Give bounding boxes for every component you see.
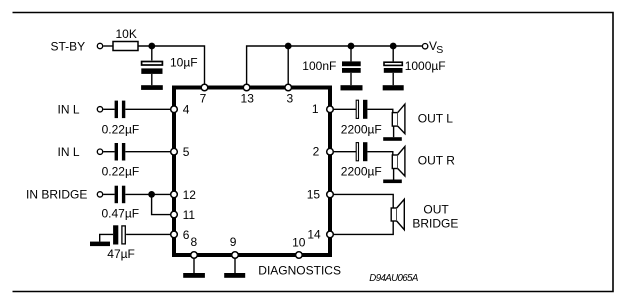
speaker LS3 OUT BRIDGE xyxy=(391,199,404,229)
svg-text:4: 4 xyxy=(183,102,190,116)
wire resistor to pin 7 riser xyxy=(138,46,205,88)
wire jog node to pin 11 xyxy=(152,194,172,214)
wire C9 to speaker LS2 xyxy=(367,152,392,155)
svg-text:47µF: 47µF xyxy=(107,247,135,261)
node B junction dot xyxy=(148,191,155,198)
svg-text:2200µF: 2200µF xyxy=(341,165,382,179)
svg-text:6: 6 xyxy=(183,228,190,242)
wire C5 to pin 5 xyxy=(125,151,172,153)
svg-text:0.47µF: 0.47µF xyxy=(102,207,140,221)
capacitor C6 0.47uF xyxy=(115,186,126,204)
svg-text:9: 9 xyxy=(230,235,237,249)
svg-text:D94AU065A: D94AU065A xyxy=(369,273,418,284)
wire pin 3 riser xyxy=(287,46,289,88)
pin 6 xyxy=(171,231,178,238)
wire Vs rail xyxy=(247,46,422,88)
terminal IN BRIDGE xyxy=(97,192,102,197)
pin 2 xyxy=(327,148,334,155)
svg-text:10: 10 xyxy=(292,235,306,249)
terminal IN L row2 xyxy=(97,149,102,154)
ground for C7 xyxy=(90,242,110,247)
wire pin 2 to C9 xyxy=(334,151,356,153)
capacitor C2 100nF xyxy=(342,46,361,85)
wire pin 8 ground stub xyxy=(193,255,195,273)
svg-text:5: 5 xyxy=(183,145,190,159)
svg-text:15: 15 xyxy=(307,187,321,201)
wire pin 15 to speaker LS3 top xyxy=(334,194,393,208)
svg-text:IN L: IN L xyxy=(58,102,80,116)
pin 14 xyxy=(327,231,334,238)
capacitor C4 0.22uF xyxy=(115,101,126,119)
node A junction dot xyxy=(148,43,155,50)
wire pin 14 to speaker LS3 bottom xyxy=(334,221,393,234)
speaker LS2 OUT R xyxy=(392,147,405,180)
node junction 100nF xyxy=(348,43,355,50)
terminal ST-BY xyxy=(97,43,102,48)
speaker LS1 OUT L xyxy=(392,104,405,137)
terminal Vs xyxy=(422,44,427,49)
svg-text:8: 8 xyxy=(190,235,197,249)
pin 10 xyxy=(296,252,303,259)
wire C7 to pin 6 xyxy=(126,233,172,235)
wire C8 to speaker LS1 xyxy=(367,109,392,112)
svg-text:12: 12 xyxy=(183,188,197,202)
resistor R1 10K xyxy=(113,42,138,51)
pin 15 xyxy=(327,191,334,198)
svg-text:7: 7 xyxy=(200,92,207,106)
ground for pin 9 xyxy=(224,273,245,278)
pin 4 xyxy=(171,106,178,113)
wire pin 1 to C8 xyxy=(334,108,356,110)
svg-text:IN BRIDGE: IN BRIDGE xyxy=(26,187,87,201)
svg-text:BRIDGE: BRIDGE xyxy=(412,216,458,230)
ground for LS2 xyxy=(383,180,402,184)
svg-text:OUT R: OUT R xyxy=(418,153,455,167)
ground for C3 xyxy=(383,85,404,90)
ground for C1 xyxy=(141,85,163,90)
ground for pin 8 xyxy=(183,273,205,278)
wire ST-BY terminal to resistor xyxy=(103,45,113,47)
svg-text:S: S xyxy=(436,44,443,56)
terminal IN L row1 xyxy=(97,107,102,112)
capacitor C8 2200uF xyxy=(356,100,367,119)
svg-text:1000µF: 1000µF xyxy=(405,59,446,73)
pin 5 xyxy=(171,148,178,155)
wire ground to C7 xyxy=(100,234,113,241)
svg-text:DIAGNOSTICS: DIAGNOSTICS xyxy=(258,263,341,277)
svg-text:14: 14 xyxy=(307,227,321,241)
svg-text:OUT: OUT xyxy=(423,203,449,217)
wire terminal to C5 xyxy=(103,151,114,153)
pin 8 xyxy=(191,252,198,259)
svg-text:10µF: 10µF xyxy=(170,55,198,69)
svg-text:100nF: 100nF xyxy=(302,59,336,73)
capacitor C3 1000uF xyxy=(384,46,403,85)
capacitor C5 0.22uF xyxy=(115,143,126,161)
ground for LS1 xyxy=(383,137,402,141)
pin 12 xyxy=(171,191,178,198)
capacitor C9 2200uF xyxy=(356,142,367,161)
ground for C2 xyxy=(341,85,363,90)
capacitor C1 10uF xyxy=(141,46,162,85)
wire terminal to C6 xyxy=(103,193,114,195)
svg-text:1: 1 xyxy=(312,102,319,116)
wire terminal to C4 xyxy=(103,108,114,110)
svg-text:3: 3 xyxy=(287,92,294,106)
node junction 1000uF xyxy=(390,43,397,50)
pin 1 xyxy=(327,106,334,113)
svg-text:0.22µF: 0.22µF xyxy=(102,165,140,179)
pin 7 xyxy=(201,84,208,91)
wire pin 9 ground stub xyxy=(234,255,236,273)
pin 13 xyxy=(243,84,250,91)
op-amp U1 power amplifier body xyxy=(174,88,330,256)
pin 9 xyxy=(232,252,239,259)
svg-text:2200µF: 2200µF xyxy=(341,122,382,136)
svg-text:0.22µF: 0.22µF xyxy=(102,122,140,136)
wire C4 to pin 4 xyxy=(125,108,172,110)
svg-text:OUT L: OUT L xyxy=(418,111,453,125)
svg-text:IN L: IN L xyxy=(58,145,80,159)
pin 3 xyxy=(285,84,292,91)
svg-text:11: 11 xyxy=(183,208,196,222)
node junction pin3 riser xyxy=(285,43,292,50)
svg-text:13: 13 xyxy=(241,92,255,106)
pin 11 xyxy=(171,211,178,218)
svg-text:ST-BY: ST-BY xyxy=(51,39,86,53)
capacitor C7 47uF xyxy=(113,225,125,244)
wire C6 to pin 12 xyxy=(125,193,172,195)
svg-text:2: 2 xyxy=(313,144,320,158)
svg-text:10K: 10K xyxy=(116,27,137,41)
